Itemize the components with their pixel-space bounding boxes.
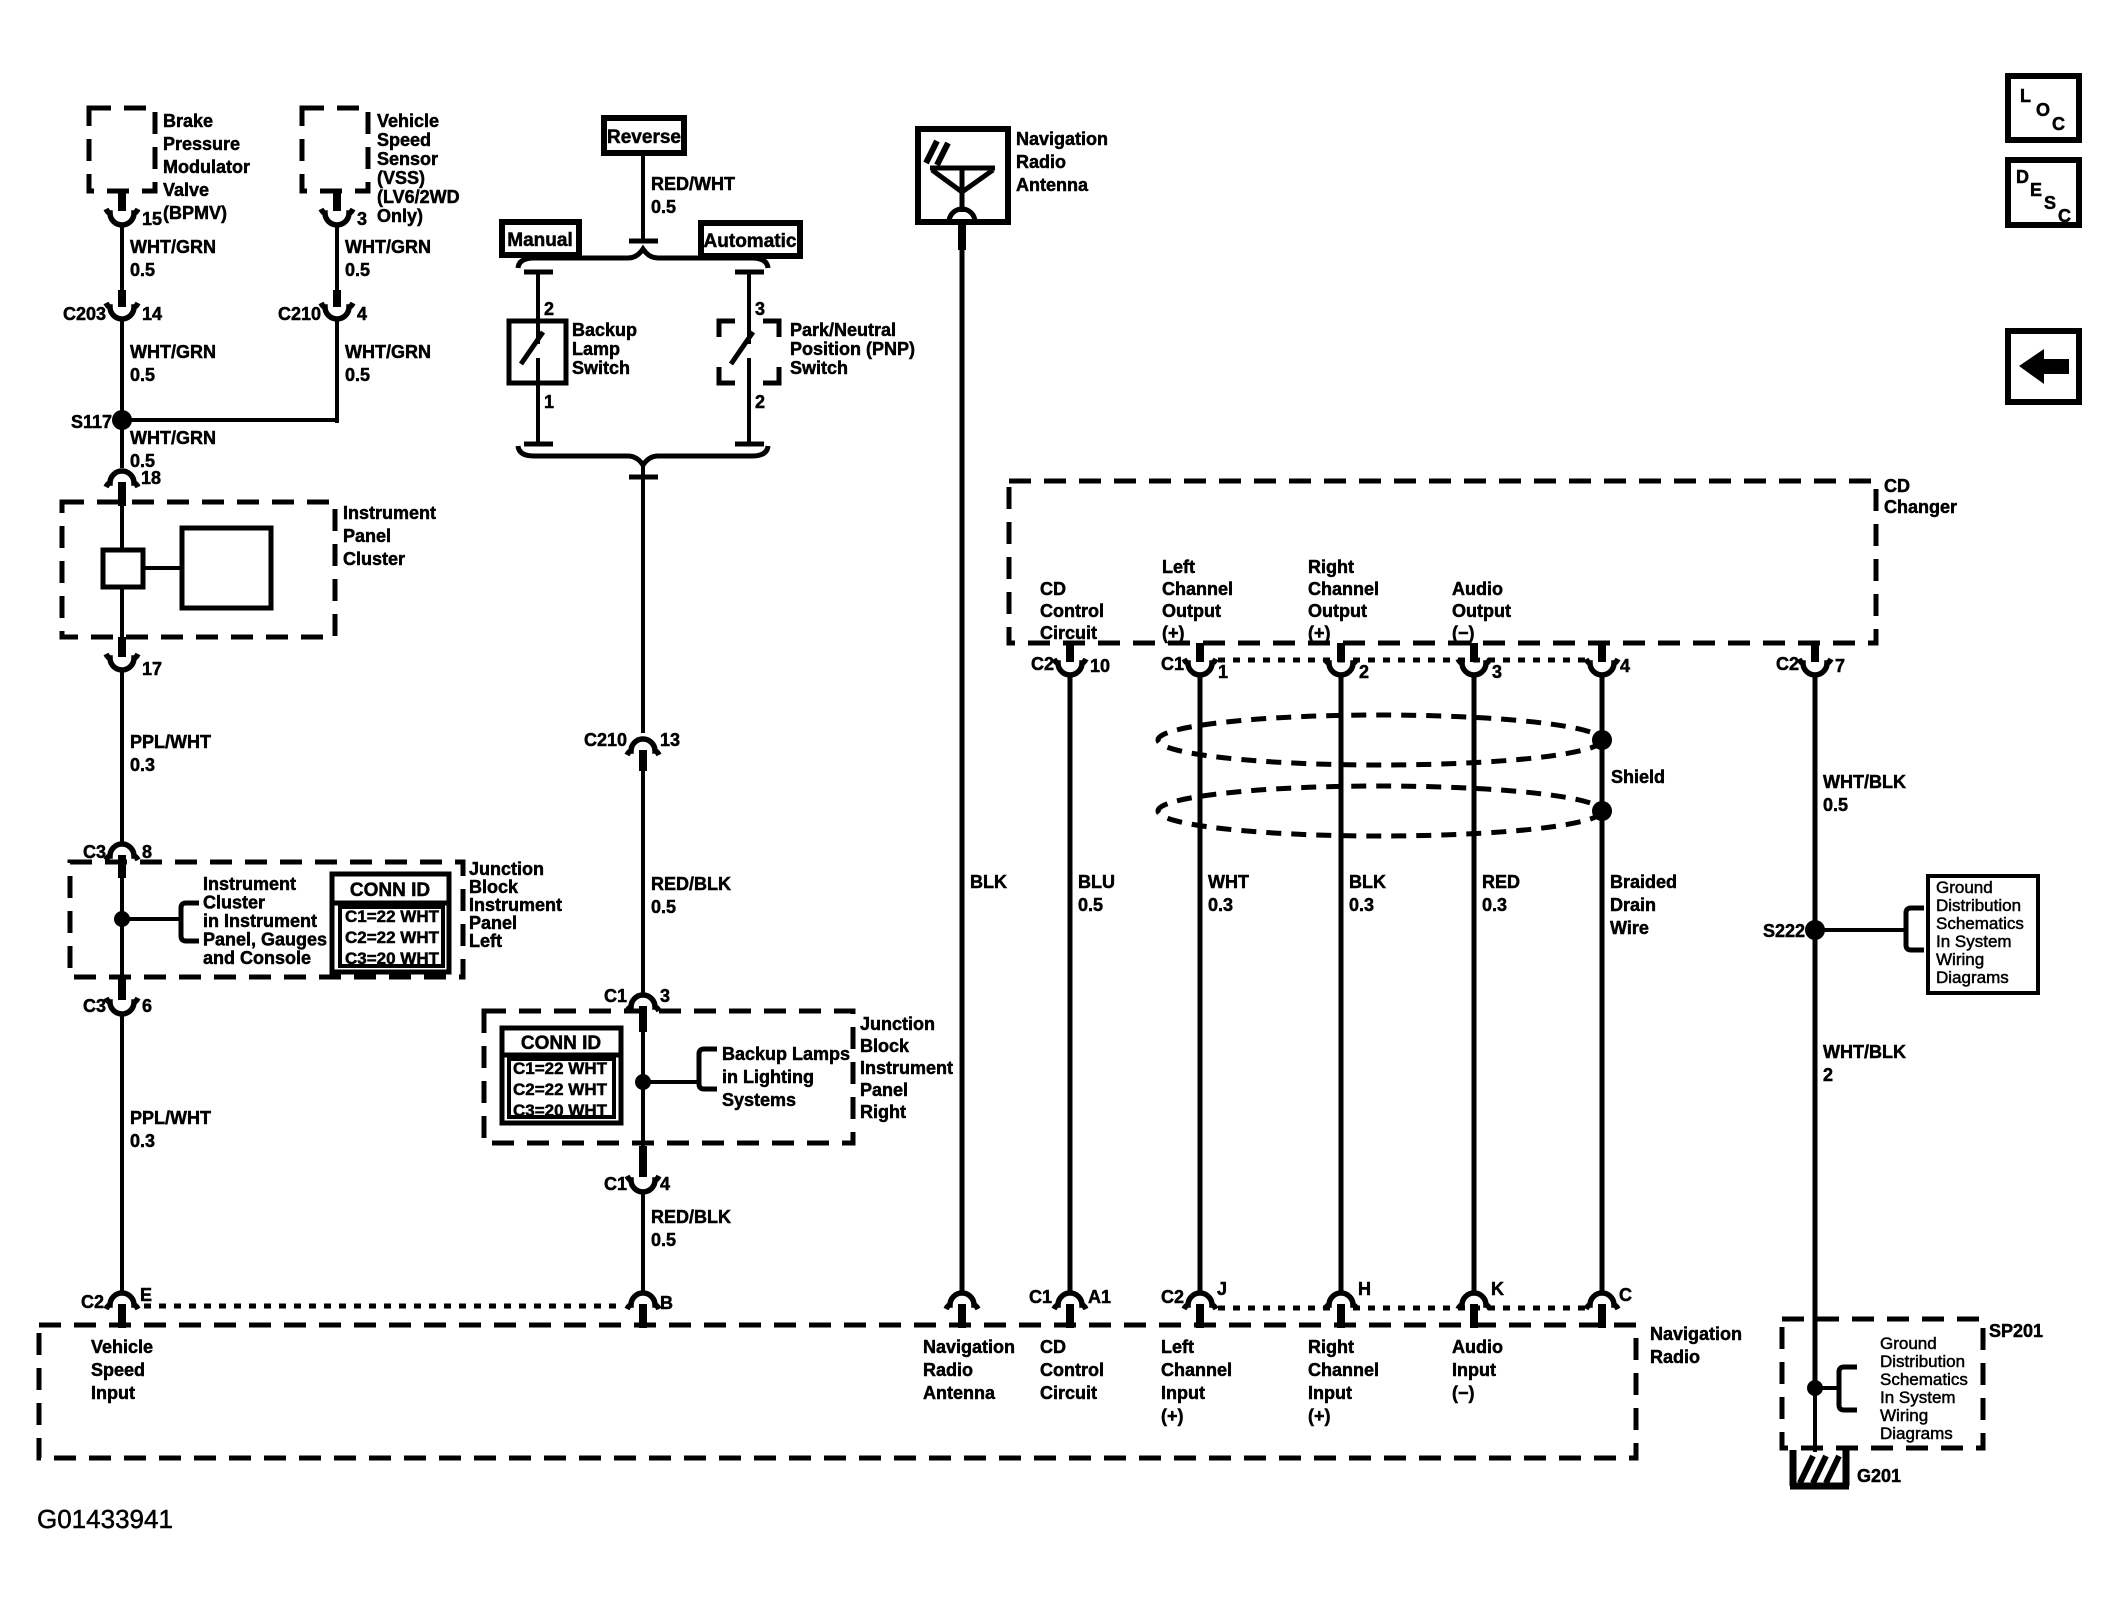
svg-text:Instrument: Instrument: [343, 503, 436, 523]
svg-text:Distribution: Distribution: [1880, 1352, 1965, 1371]
svg-text:Modulator: Modulator: [163, 157, 250, 177]
svg-text:PPL/WHT: PPL/WHT: [130, 732, 211, 752]
splice S117 junction: [112, 410, 132, 430]
svg-text:Switch: Switch: [790, 358, 848, 378]
svg-text:in Lighting: in Lighting: [722, 1067, 814, 1087]
svg-text:Circuit: Circuit: [1040, 1383, 1097, 1403]
svg-text:Panel: Panel: [469, 913, 517, 933]
svg-text:Distribution: Distribution: [1936, 896, 2021, 915]
svg-text:Wiring: Wiring: [1936, 950, 1984, 969]
svg-text:Input: Input: [1161, 1383, 1205, 1403]
svg-text:Navigation: Navigation: [1650, 1324, 1742, 1344]
svg-text:Vehicle: Vehicle: [91, 1337, 153, 1357]
svg-text:H: H: [1358, 1279, 1371, 1299]
svg-text:Vehicle: Vehicle: [377, 111, 439, 131]
svg-text:(−): (−): [1452, 623, 1475, 643]
node Automatic label box: [701, 223, 800, 256]
svg-text:D: D: [2016, 167, 2029, 187]
svg-text:4: 4: [1620, 656, 1630, 676]
svg-text:B: B: [660, 1293, 673, 1313]
wire from PNP switch pin 2: [747, 358, 751, 444]
svg-text:0.5: 0.5: [1823, 795, 1848, 815]
svg-text:Only): Only): [377, 206, 423, 226]
svg-text:Left: Left: [1162, 557, 1195, 577]
shield junction dots: [1592, 730, 1612, 750]
svg-text:C2: C2: [1031, 654, 1054, 674]
svg-text:(+): (+): [1308, 623, 1331, 643]
svg-text:RED/BLK: RED/BLK: [651, 1207, 731, 1227]
wire braided drain: [1600, 676, 1605, 1292]
svg-text:C3: C3: [83, 842, 106, 862]
svg-text:C1=22 WHT: C1=22 WHT: [345, 907, 440, 926]
ground G201 symbol: [1790, 1450, 1849, 1486]
wire through junction block left: [120, 878, 124, 999]
svg-text:Control: Control: [1040, 1360, 1104, 1380]
svg-text:C203: C203: [63, 304, 106, 324]
connector C1 pin 1 of CD Changer: [1196, 643, 1204, 662]
wire from backup lamp switch pin 1: [536, 358, 540, 444]
svg-text:0.3: 0.3: [130, 1131, 155, 1151]
component Brake Pressure Modulator Valve (BPMV) dashed box: [89, 108, 155, 191]
wire stub from VSS pin 3: [333, 191, 341, 211]
wire WHT/GRN 0.5 from VSS pin 3 to C210: [335, 226, 339, 292]
svg-text:Channel: Channel: [1308, 579, 1379, 599]
svg-text:3: 3: [1492, 662, 1502, 682]
component Vehicle Speed Sensor (VSS) dashed box: [302, 108, 368, 191]
svg-text:(+): (+): [1308, 1406, 1331, 1426]
svg-text:C2: C2: [81, 1292, 104, 1312]
wire WHT/BLK 0.5 from C2 pin 7 to S222: [1813, 676, 1818, 930]
svg-text:C2=22 WHT: C2=22 WHT: [513, 1080, 608, 1099]
svg-text:18: 18: [141, 468, 161, 488]
svg-text:C1: C1: [1029, 1287, 1052, 1307]
svg-text:C1=22 WHT: C1=22 WHT: [513, 1059, 608, 1078]
wire through junction block right: [641, 1032, 645, 1146]
wire inside cluster to pin 17: [120, 587, 124, 637]
svg-text:RED/BLK: RED/BLK: [651, 874, 731, 894]
svg-text:Right: Right: [860, 1102, 906, 1122]
svg-text:S222: S222: [1763, 921, 1805, 941]
callout bracket backup lamps: [699, 1049, 717, 1089]
svg-text:Radio: Radio: [1016, 152, 1066, 172]
svg-text:Lamp: Lamp: [572, 339, 620, 359]
connector C3 pin 8: [106, 844, 138, 860]
connector pin 3 of CD Changer: [1470, 643, 1478, 662]
svg-text:Automatic: Automatic: [704, 231, 797, 252]
svg-text:0.5: 0.5: [345, 365, 370, 385]
svg-text:(BPMV): (BPMV): [163, 203, 227, 223]
component Backup Lamp Switch: [509, 321, 566, 383]
wire merged output down to C210 pin 13: [629, 475, 658, 480]
svg-text:(LV6/2WD: (LV6/2WD: [377, 187, 460, 207]
svg-text:7: 7: [1835, 656, 1845, 676]
svg-text:0.3: 0.3: [1208, 895, 1233, 915]
svg-text:Right: Right: [1308, 557, 1354, 577]
wire RED/WHT 0.5 from Reverse: [641, 153, 645, 241]
node Reverse signal box: [604, 118, 684, 153]
svg-text:8: 8: [142, 842, 152, 862]
svg-text:Panel: Panel: [343, 526, 391, 546]
component CD Changer dashed box: [1009, 481, 1876, 643]
callout bracket instrument cluster: [181, 903, 199, 941]
svg-text:Left: Left: [469, 931, 502, 951]
svg-text:Antenna: Antenna: [1016, 175, 1089, 195]
svg-text:2: 2: [544, 299, 554, 319]
svg-text:0.3: 0.3: [130, 755, 155, 775]
svg-text:C210: C210: [584, 730, 627, 750]
connector pin 18 into Instrument Panel Cluster: [106, 471, 138, 487]
svg-text:C2: C2: [1776, 654, 1799, 674]
svg-text:Panel, Gauges: Panel, Gauges: [203, 930, 327, 950]
svg-text:Output: Output: [1308, 601, 1367, 621]
dotted connector tie line E to B: [144, 1304, 622, 1309]
button back arrow: [2008, 331, 2079, 402]
svg-text:14: 14: [142, 304, 162, 324]
svg-text:1: 1: [544, 392, 554, 412]
svg-text:RED/WHT: RED/WHT: [651, 174, 735, 194]
svg-text:Antenna: Antenna: [923, 1383, 996, 1403]
svg-text:(VSS): (VSS): [377, 168, 425, 188]
svg-text:RED: RED: [1482, 872, 1520, 892]
svg-text:G01433941: G01433941: [37, 1504, 173, 1534]
svg-text:(+): (+): [1161, 1406, 1184, 1426]
wire BLU 0.5 from C2 pin 10 to C1 pin A1: [1068, 676, 1073, 1292]
svg-text:2: 2: [755, 392, 765, 412]
svg-text:S117: S117: [71, 412, 112, 432]
button LOC: [2008, 76, 2079, 140]
connector pin 3 of VSS: [321, 209, 353, 225]
wire PPL/WHT 0.3 from C3 pin 6 to Navigation Radio pin E: [120, 1015, 124, 1292]
svg-text:A1: A1: [1088, 1287, 1111, 1307]
connector pin 17 below Instrument Panel Cluster: [118, 637, 126, 657]
svg-text:0.5: 0.5: [651, 1230, 676, 1250]
svg-text:Cluster: Cluster: [343, 549, 405, 569]
connector pin K of Navigation Radio: [1458, 1293, 1490, 1309]
svg-text:Right: Right: [1308, 1337, 1354, 1357]
svg-text:C2: C2: [1161, 1287, 1184, 1307]
svg-text:Junction: Junction: [469, 859, 544, 879]
wire WHT/GRN 0.5 from pin 15 to C203: [120, 226, 124, 292]
junction point in junction block left: [114, 911, 130, 927]
svg-text:CD: CD: [1040, 579, 1066, 599]
svg-text:O: O: [2036, 100, 2050, 120]
CONN ID table junction block left: [332, 874, 449, 972]
svg-text:Backup: Backup: [572, 320, 637, 340]
connector C203 pin 14: [118, 290, 126, 307]
svg-text:Drain: Drain: [1610, 895, 1656, 915]
wire inside cluster from pin 18: [120, 505, 124, 552]
svg-text:CONN ID: CONN ID: [350, 880, 430, 901]
svg-text:In System: In System: [1936, 932, 2012, 951]
svg-text:BLK: BLK: [970, 872, 1007, 892]
svg-text:0.3: 0.3: [1349, 895, 1374, 915]
svg-text:Radio: Radio: [923, 1360, 973, 1380]
svg-text:Ground: Ground: [1880, 1334, 1937, 1353]
splice pack SP201 dashed box: [1782, 1319, 1983, 1448]
svg-text:E: E: [2030, 180, 2042, 200]
svg-text:CD: CD: [1040, 1337, 1066, 1357]
svg-text:WHT: WHT: [1208, 872, 1249, 892]
svg-text:Wiring: Wiring: [1880, 1406, 1928, 1425]
svg-text:Radio: Radio: [1650, 1347, 1700, 1367]
component Navigation Radio dashed box: [39, 1325, 1636, 1458]
svg-text:BLU: BLU: [1078, 872, 1115, 892]
component Junction Block Instrument Panel Right dashed box: [484, 1011, 853, 1143]
svg-text:0.5: 0.5: [130, 365, 155, 385]
shield dashed ellipses: [1158, 715, 1602, 765]
wire from SP201 to ground G201: [1813, 1388, 1817, 1452]
svg-text:0.5: 0.5: [651, 197, 676, 217]
svg-text:Instrument: Instrument: [469, 895, 562, 915]
svg-text:C: C: [2052, 114, 2065, 134]
svg-text:E: E: [140, 1285, 152, 1305]
svg-text:0.3: 0.3: [1482, 895, 1507, 915]
connector C2 pin E of Navigation Radio: [106, 1293, 138, 1309]
splice S222: [1805, 920, 1825, 940]
svg-text:Cluster: Cluster: [203, 893, 265, 913]
svg-text:WHT/GRN: WHT/GRN: [345, 342, 431, 362]
svg-text:CONN ID: CONN ID: [521, 1033, 601, 1054]
svg-text:WHT/GRN: WHT/GRN: [130, 428, 216, 448]
connector pin C of Navigation Radio: [1586, 1293, 1618, 1309]
svg-text:0.5: 0.5: [345, 260, 370, 280]
svg-text:J: J: [1217, 1279, 1227, 1299]
svg-text:Input: Input: [1308, 1383, 1352, 1403]
wire from S117 to VSS branch: [122, 418, 337, 422]
svg-text:Sensor: Sensor: [377, 149, 438, 169]
svg-text:3: 3: [357, 209, 367, 229]
connector C1 pin 4: [639, 1146, 647, 1177]
svg-text:0.5: 0.5: [1078, 895, 1103, 915]
wire WHT 0.3 left channel: [1198, 676, 1203, 1292]
svg-text:WHT/BLK: WHT/BLK: [1823, 1042, 1906, 1062]
svg-text:WHT/GRN: WHT/GRN: [345, 237, 431, 257]
svg-text:Block: Block: [469, 877, 519, 897]
svg-text:C1: C1: [604, 986, 627, 1006]
svg-text:(−): (−): [1452, 1383, 1475, 1403]
svg-text:6: 6: [142, 996, 152, 1016]
component Junction Block Instrument Panel Left dashed box: [70, 862, 463, 977]
wire WHT/GRN 0.5 from S117 down to pin 18: [120, 420, 124, 468]
svg-text:Circuit: Circuit: [1040, 623, 1097, 643]
svg-text:Valve: Valve: [163, 180, 209, 200]
connector C1 pin A1 of Navigation Radio: [1054, 1293, 1086, 1309]
svg-text:PPL/WHT: PPL/WHT: [130, 1108, 211, 1128]
svg-text:Output: Output: [1162, 601, 1221, 621]
svg-text:Pressure: Pressure: [163, 134, 240, 154]
svg-text:Braided: Braided: [1610, 872, 1677, 892]
svg-text:Channel: Channel: [1162, 579, 1233, 599]
connector pin 2 of CD Changer: [1337, 643, 1345, 662]
svg-text:Park/Neutral: Park/Neutral: [790, 320, 896, 340]
connector pin H of Navigation Radio: [1325, 1293, 1357, 1309]
svg-text:Brake: Brake: [163, 111, 213, 131]
svg-text:C2=22 WHT: C2=22 WHT: [345, 928, 440, 947]
cluster internal module square: [182, 528, 271, 608]
junction point in SP201: [1807, 1380, 1823, 1396]
svg-text:Diagrams: Diagrams: [1936, 968, 2009, 987]
svg-text:Audio: Audio: [1452, 579, 1503, 599]
svg-text:L: L: [2020, 86, 2031, 106]
svg-text:C: C: [1619, 1285, 1632, 1305]
svg-text:Systems: Systems: [722, 1090, 796, 1110]
antenna symbol: [930, 166, 995, 171]
svg-text:Panel: Panel: [860, 1080, 908, 1100]
label Ground Distribution Schematics In System Wiring Diagrams box: [1928, 876, 2038, 993]
svg-text:Left: Left: [1161, 1337, 1194, 1357]
wire to PNP switch pin 3: [735, 270, 764, 275]
svg-text:0.5: 0.5: [130, 260, 155, 280]
svg-text:C1: C1: [1161, 654, 1184, 674]
svg-text:Switch: Switch: [572, 358, 630, 378]
svg-text:WHT/GRN: WHT/GRN: [130, 342, 216, 362]
svg-text:0.5: 0.5: [651, 897, 676, 917]
wire WHT/BLK 2 from S222 to SP201: [1813, 930, 1818, 1390]
svg-text:10: 10: [1090, 656, 1110, 676]
svg-text:Audio: Audio: [1452, 1337, 1503, 1357]
svg-text:C3=20 WHT: C3=20 WHT: [345, 949, 440, 968]
svg-text:17: 17: [142, 659, 162, 679]
wire WHT/GRN 0.5 from C210 pin 4 down to S117: [335, 320, 339, 423]
wire RED 0.3 audio: [1472, 676, 1477, 1292]
wire BLK 0.3 right channel: [1339, 676, 1344, 1292]
svg-text:C1: C1: [604, 1174, 627, 1194]
connector antenna input of Navigation Radio: [946, 1293, 978, 1309]
connector C2 pin 7 of CD Changer: [1811, 643, 1819, 662]
svg-text:Input: Input: [1452, 1360, 1496, 1380]
callout bracket SP201 ground distribution: [1839, 1367, 1857, 1410]
svg-text:Speed: Speed: [377, 130, 431, 150]
svg-text:WHT/BLK: WHT/BLK: [1823, 772, 1906, 792]
svg-text:Navigation: Navigation: [923, 1337, 1015, 1357]
wire stub from BPMV pin 15: [118, 191, 126, 211]
svg-text:Shield: Shield: [1611, 767, 1665, 787]
wire link inside cluster: [143, 566, 182, 570]
svg-text:Reverse: Reverse: [607, 127, 681, 148]
connector C210 pin 4: [333, 290, 341, 307]
svg-text:Wire: Wire: [1610, 918, 1649, 938]
junction point in junction block right: [635, 1074, 651, 1090]
svg-text:WHT/GRN: WHT/GRN: [130, 237, 216, 257]
svg-text:3: 3: [755, 299, 765, 319]
wire BLK from antenna to Navigation Radio: [958, 222, 966, 250]
connector C3 pin 6: [118, 977, 126, 1000]
wire RED/BLK 0.5 from C210 pin 13 to C1 pin 3: [641, 771, 645, 997]
svg-text:Channel: Channel: [1308, 1360, 1379, 1380]
svg-text:BLK: BLK: [1349, 872, 1386, 892]
svg-text:(+): (+): [1162, 623, 1185, 643]
brace manual/automatic split top: [518, 249, 768, 268]
cluster internal sensor square: [103, 550, 143, 587]
node Manual label box: [502, 222, 579, 255]
wire S222 to ground distribution callout: [1815, 928, 1906, 932]
connector C2 pin 10 of CD Changer: [1066, 643, 1074, 662]
wire RED/BLK 0.5 from C1 pin 4 to Navigation Radio pin B: [641, 1193, 645, 1292]
svg-text:Instrument: Instrument: [860, 1058, 953, 1078]
svg-text:in Instrument: in Instrument: [203, 911, 317, 931]
svg-text:Manual: Manual: [507, 230, 572, 251]
svg-text:SP201: SP201: [1989, 1321, 2043, 1341]
svg-text:K: K: [1491, 1279, 1504, 1299]
svg-text:Navigation: Navigation: [1016, 129, 1108, 149]
svg-text:Block: Block: [860, 1036, 910, 1056]
svg-text:Schematics: Schematics: [1936, 914, 2024, 933]
connector pin 4 of CD Changer: [1598, 643, 1606, 662]
svg-text:Output: Output: [1452, 601, 1511, 621]
svg-text:C210: C210: [278, 304, 321, 324]
svg-text:and Console: and Console: [203, 948, 311, 968]
CONN ID table junction block right: [502, 1028, 621, 1123]
svg-text:Ground: Ground: [1936, 878, 1993, 897]
svg-text:4: 4: [357, 304, 367, 324]
connector pin B of Navigation Radio: [627, 1293, 659, 1309]
wire to SP201 ground distribution callout: [1815, 1386, 1839, 1390]
svg-text:Input: Input: [91, 1383, 135, 1403]
svg-text:S: S: [2044, 193, 2056, 213]
connector pin 15 of BPMV: [106, 209, 138, 225]
dotted connector tie line pins 1-4: [1218, 658, 1586, 663]
svg-text:2: 2: [1359, 662, 1369, 682]
svg-text:Diagrams: Diagrams: [1880, 1424, 1953, 1443]
wire to instrument cluster callout: [122, 917, 181, 921]
svg-text:3: 3: [660, 986, 670, 1006]
svg-text:Speed: Speed: [91, 1360, 145, 1380]
svg-text:C3: C3: [83, 996, 106, 1016]
svg-text:2: 2: [1823, 1065, 1833, 1085]
component Navigation Radio Antenna box: [918, 129, 1008, 222]
wire to backup lamps callout: [643, 1080, 699, 1084]
svg-text:G201: G201: [1857, 1466, 1901, 1486]
connector C2 pin J of Navigation Radio: [1184, 1293, 1216, 1309]
callout bracket ground distribution: [1906, 908, 1924, 950]
wire PPL/WHT 0.3 from pin 17 to C3 pin 8: [120, 671, 124, 845]
wire WHT/GRN 0.5 from C203 to splice S117: [120, 320, 124, 423]
button DESC: [2008, 160, 2079, 225]
dotted connector tie line J to C: [1218, 1306, 1585, 1311]
svg-text:Position (PNP): Position (PNP): [790, 339, 915, 359]
svg-text:1: 1: [1218, 662, 1228, 682]
svg-text:Changer: Changer: [1884, 497, 1957, 517]
wire to backup lamp switch pin 2: [524, 270, 553, 275]
svg-text:In System: In System: [1880, 1388, 1956, 1407]
connector C210 pin 13: [627, 739, 659, 755]
svg-text:13: 13: [660, 730, 680, 750]
component Park/Neutral Position PNP Switch dashed outline: [719, 321, 735, 337]
svg-text:Junction: Junction: [860, 1014, 935, 1034]
component Instrument Panel Cluster dashed box: [62, 502, 335, 637]
svg-text:CD: CD: [1884, 476, 1910, 496]
connector C1 pin 3 junction block right: [627, 995, 659, 1011]
svg-text:Backup Lamps: Backup Lamps: [722, 1044, 850, 1064]
svg-text:Schematics: Schematics: [1880, 1370, 1968, 1389]
svg-text:Instrument: Instrument: [203, 874, 296, 894]
brace manual/automatic merge bottom: [518, 446, 768, 465]
svg-text:15: 15: [142, 209, 162, 229]
svg-text:Control: Control: [1040, 601, 1104, 621]
svg-text:4: 4: [660, 1174, 670, 1194]
svg-text:Channel: Channel: [1161, 1360, 1232, 1380]
svg-text:C: C: [2058, 206, 2071, 226]
svg-text:C3=20 WHT: C3=20 WHT: [513, 1101, 608, 1120]
